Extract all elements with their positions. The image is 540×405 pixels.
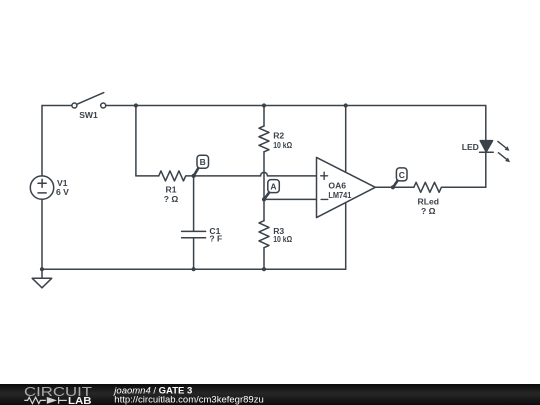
svg-text:? F: ? F: [209, 234, 222, 244]
CircuitLab logo diode: [47, 396, 57, 403]
svg-text:C: C: [399, 170, 405, 180]
wire V1 bottom to ground rail: [41, 199, 43, 269]
node junction top of R1 branch: [134, 103, 138, 107]
label RLed value: [418, 196, 439, 216]
svg-text:A: A: [270, 181, 276, 191]
node B junction dot: [192, 174, 196, 178]
svg-text:10 kΩ: 10 kΩ: [273, 140, 292, 150]
node B label: [194, 155, 209, 176]
svg-text:R2: R2: [273, 130, 284, 140]
junction op-amp V+ on top rail: [344, 103, 348, 107]
node A junction dot: [262, 197, 266, 201]
svg-text:6 V: 6 V: [56, 187, 69, 197]
voltage source V1: [30, 176, 53, 199]
resistor R1: [159, 171, 194, 181]
wire node B to op-amp plus input with hop over divider: [194, 172, 317, 175]
label R1 value: [164, 185, 179, 204]
wire node A to op-amp minus input: [264, 198, 317, 200]
footer banner: [0, 384, 540, 405]
junction C1 bottom: [192, 267, 196, 271]
wire bottom rail: [42, 268, 346, 270]
ground: [32, 267, 52, 288]
CircuitLab logo resistor squiggle: [24, 396, 66, 403]
wire R2 to node A: [263, 152, 265, 200]
node C label: [393, 168, 407, 187]
svg-text:? Ω: ? Ω: [421, 206, 436, 216]
resistor R3: [259, 221, 269, 248]
LED D1: [480, 141, 494, 153]
label OA6 LM741: [328, 180, 351, 200]
node A label: [264, 180, 279, 200]
svg-text:OA6: OA6: [328, 180, 346, 190]
svg-text:10 kΩ: 10 kΩ: [273, 234, 292, 244]
svg-text:RLed: RLed: [418, 196, 439, 206]
node junction top of R2: [262, 103, 266, 107]
LED emission arrows: [498, 141, 510, 162]
svg-text:B: B: [200, 157, 206, 167]
node C junction dot: [391, 185, 395, 189]
wire R3 to bottom rail: [263, 248, 265, 270]
wire op-amp power pins: [345, 106, 347, 270]
wire node B down to C1: [193, 176, 195, 231]
resistor R2: [259, 126, 269, 152]
junction R3 bottom: [262, 267, 266, 271]
svg-text:SW1: SW1: [79, 110, 98, 120]
svg-text:http://circuitlab.com/cm3kefeg: http://circuitlab.com/cm3kefegr89zu: [114, 394, 263, 405]
wire C1 to bottom rail: [193, 238, 195, 270]
svg-text:LM741: LM741: [328, 190, 351, 200]
wire right vertical rail: [485, 106, 487, 188]
label R2 value: [273, 130, 292, 150]
switch SW1: [72, 93, 106, 108]
label R3 value: [273, 226, 292, 244]
wire op-amp output: [375, 186, 414, 188]
wire top rail to R2: [263, 106, 265, 126]
resistor RLed: [414, 182, 486, 192]
wire left vertical (top rail to V1): [41, 106, 43, 177]
svg-text:LAB: LAB: [68, 396, 92, 405]
svg-text:? Ω: ? Ω: [164, 194, 179, 204]
op-amp U1 OA6 triangle: [317, 157, 376, 217]
capacitor C1: [182, 231, 206, 237]
label V1 value: [56, 178, 69, 197]
svg-text:LED: LED: [462, 142, 479, 152]
wire top rail: [42, 105, 486, 107]
wire switch branch down to R1: [136, 106, 159, 176]
label C1 value: [209, 226, 222, 244]
wire node A down to R3: [263, 199, 265, 220]
